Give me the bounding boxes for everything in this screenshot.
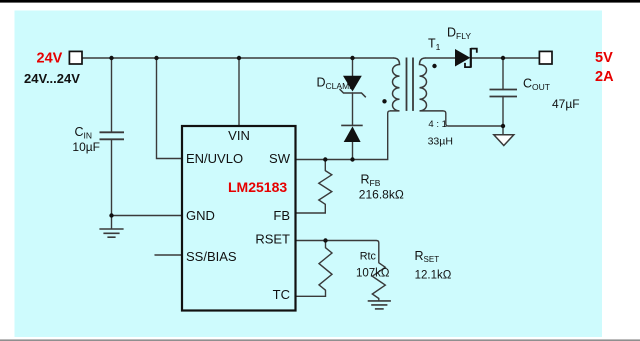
svg-text:5V: 5V <box>595 50 613 66</box>
svg-text:47µF: 47µF <box>552 97 580 111</box>
svg-text:Rtc: Rtc <box>360 250 377 262</box>
svg-text:216.8kΩ: 216.8kΩ <box>359 188 404 202</box>
svg-text:12.1kΩ: 12.1kΩ <box>415 269 452 281</box>
svg-text:GND: GND <box>186 208 215 223</box>
svg-text:107kΩ: 107kΩ <box>356 268 390 280</box>
svg-text:VIN: VIN <box>228 128 250 143</box>
svg-text:10µF: 10µF <box>72 140 100 154</box>
svg-text:24V: 24V <box>37 51 63 67</box>
svg-text:24V...24V: 24V...24V <box>24 71 80 86</box>
svg-text:33µH: 33µH <box>428 136 453 148</box>
svg-text:EN/UVLO: EN/UVLO <box>186 151 243 166</box>
svg-text:TC: TC <box>273 287 290 302</box>
svg-text:LM25183: LM25183 <box>228 179 287 195</box>
svg-text:RSET: RSET <box>255 232 290 247</box>
svg-text:2A: 2A <box>595 69 614 85</box>
svg-text:4 : 1: 4 : 1 <box>428 119 447 130</box>
svg-text:FB: FB <box>273 208 290 223</box>
svg-text:SW: SW <box>269 151 291 166</box>
svg-text:SS/BIAS: SS/BIAS <box>186 249 237 264</box>
